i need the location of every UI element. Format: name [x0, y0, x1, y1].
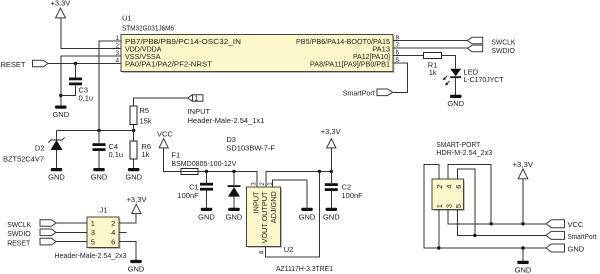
node VCC rail / C1 — [205, 170, 208, 173]
svg-text:STM32G031J6M6: STM32G031J6M6 — [122, 24, 174, 33]
schottky diode D3 — [226, 135, 275, 208]
svg-text:U1: U1 — [122, 14, 132, 23]
power +3.3V (J1 pin 2) — [127, 195, 147, 214]
capacitor C4 — [93, 131, 124, 169]
svg-text:1: 1 — [91, 219, 95, 228]
svg-text:GND: GND — [91, 173, 108, 182]
svg-text:100nF: 100nF — [177, 191, 199, 200]
resistor R1 — [424, 53, 442, 77]
capacitor C2 — [325, 171, 363, 207]
svg-text:+3,3V: +3,3V — [127, 195, 147, 204]
wire J1 pin 2 to +3.3V — [119, 214, 136, 224]
wire SMART-PORT pin 2 to GND row — [424, 164, 546, 248]
wire U2 VOUT (pin 4) loop — [265, 171, 319, 256]
svg-text:+3,3V: +3,3V — [51, 0, 71, 8]
ground (below J1) — [128, 260, 145, 273]
svg-text:SWDIO: SWDIO — [491, 46, 515, 55]
ground (below C1) — [198, 208, 215, 222]
ground (below D2) — [48, 168, 65, 182]
wire RESET to U1 pin 4 — [48, 63, 121, 65]
svg-text:1: 1 — [435, 204, 444, 208]
port SWCLK (top) — [467, 37, 515, 46]
svg-text:RESET: RESET — [7, 239, 30, 248]
svg-text:GND: GND — [299, 213, 316, 222]
wire U2 output rail to +3.3V — [266, 171, 331, 187]
svg-text:15k: 15k — [140, 117, 152, 126]
svg-text:3: 3 — [444, 204, 453, 208]
wire U1 pin 8 to SWCLK — [393, 40, 467, 42]
wire U1 pin 5 to SmartPort flag — [393, 63, 408, 92]
wire VCC to U2 input — [164, 148, 257, 187]
svg-text:2: 2 — [259, 182, 266, 186]
svg-text:Header-Male-2.54_2x3: Header-Male-2.54_2x3 — [55, 251, 127, 260]
port SmartPort (right) — [546, 231, 597, 240]
svg-text:GND: GND — [568, 245, 585, 254]
node pin4/VCC row — [490, 222, 493, 225]
svg-text:2: 2 — [111, 219, 115, 228]
capacitor C3 — [61, 64, 93, 103]
wire SMART-PORT pin 4 to VCC row — [448, 164, 491, 223]
ground (below C2) — [323, 208, 340, 222]
svg-text:+3,3V: +3,3V — [513, 160, 534, 169]
svg-text:BSMD0805-100-12V: BSMD0805-100-12V — [171, 159, 236, 168]
input rail wire (D2/C4/R5/R6) — [57, 130, 134, 132]
voltage regulator U2 — [247, 182, 334, 273]
ground (below D3) — [226, 208, 243, 222]
svg-text:GND: GND — [515, 266, 532, 274]
svg-text:SmartPort: SmartPort — [568, 232, 598, 241]
svg-text:+3,3V: +3,3V — [321, 127, 341, 136]
node RESET/C3 junction — [74, 62, 77, 65]
svg-text:1k: 1k — [142, 150, 150, 159]
svg-text:3: 3 — [250, 182, 257, 186]
port SWDIO (top) — [467, 45, 515, 55]
svg-text:VCC: VCC — [568, 220, 584, 229]
zener diode D2 — [3, 131, 65, 169]
ground (below LED) — [447, 95, 464, 108]
svg-text:OUTPUT: OUTPUT — [260, 191, 269, 222]
svg-text:U2: U2 — [284, 245, 294, 254]
node VSS/C3 junction — [59, 94, 62, 97]
svg-text:Header-Male-2.54_1x1: Header-Male-2.54_1x1 — [188, 116, 265, 125]
svg-text:GND: GND — [226, 213, 243, 222]
wire R1 to LED — [442, 56, 456, 69]
port SWDIO (J1) — [7, 229, 56, 238]
ground (below R6) — [125, 168, 142, 182]
node output rail / VOUT loop — [318, 170, 321, 173]
svg-text:D2: D2 — [35, 144, 45, 153]
svg-text:GND: GND — [48, 173, 65, 182]
svg-text:VOUT: VOUT — [260, 223, 269, 244]
svg-text:4: 4 — [444, 185, 453, 189]
svg-text:BZT52C4V7: BZT52C4V7 — [3, 155, 44, 164]
svg-text:5: 5 — [91, 237, 95, 246]
port INPUT header pin 1 — [188, 95, 265, 125]
port RESET (J1) — [7, 238, 56, 247]
svg-text:3: 3 — [91, 228, 95, 237]
svg-text:GND: GND — [125, 173, 142, 182]
svg-text:1: 1 — [194, 96, 198, 103]
wire +3.3V to U1 pin 2 (VDD) — [61, 18, 121, 49]
svg-text:6: 6 — [111, 237, 115, 246]
svg-text:PA8/PA11[PA9]/PB0/PB1: PA8/PA11[PA9]/PB0/PB1 — [310, 60, 390, 69]
ground (smart-port) — [515, 261, 532, 274]
svg-text:PA0/PA1/PA2/PF2-NRST: PA0/PA1/PA2/PF2-NRST — [125, 60, 212, 69]
svg-text:4: 4 — [258, 250, 265, 254]
wire SWCLK to J1 pin 1 — [56, 222, 87, 224]
svg-text:0,1u: 0,1u — [109, 150, 124, 159]
port VCC (right) — [546, 220, 584, 229]
svg-text:J1: J1 — [100, 206, 108, 215]
svg-text:6: 6 — [454, 185, 463, 189]
LED D1 L-C170JYCT — [443, 68, 504, 95]
power VCC (middle left) — [157, 129, 173, 148]
node GND row — [521, 246, 524, 249]
svg-text:SmartPort: SmartPort — [343, 88, 376, 97]
port RESET — [1, 60, 49, 69]
svg-text:INPUT: INPUT — [188, 107, 211, 116]
wire GND row to ground symbol — [522, 248, 524, 261]
svg-text:GND: GND — [323, 213, 340, 222]
wire U2 ADJ/GND to ground — [273, 180, 307, 208]
wire SMART-PORT pin 1 to GND row — [438, 210, 440, 249]
wire U1 pin 1 down to input rail — [99, 41, 121, 131]
resistor R5 — [130, 98, 187, 131]
svg-text:GND: GND — [198, 213, 215, 222]
svg-text:1k: 1k — [429, 68, 437, 77]
fuse F1 — [171, 151, 236, 175]
wire SMART-PORT pin 5 to SmartPort row — [458, 210, 546, 236]
svg-text:2: 2 — [435, 185, 444, 189]
wire J1 pin 6 to GND — [119, 242, 136, 260]
svg-text:R5: R5 — [140, 106, 150, 115]
wire U1 pin 6 to R1 — [393, 55, 424, 57]
net label SmartPort (U1) — [343, 88, 393, 97]
svg-text:GND: GND — [447, 99, 464, 108]
node +3.3V/VCC row — [521, 222, 524, 225]
node pin6/SmartPort row — [473, 234, 476, 237]
svg-text:SD103BW-7-F: SD103BW-7-F — [226, 143, 275, 152]
node output rail / C2 / +3.3V — [330, 170, 333, 173]
svg-text:4: 4 — [111, 228, 115, 237]
op-amp U1 — [121, 14, 395, 74]
node rail/C4 — [97, 129, 100, 132]
power +3.3V (top left) — [51, 0, 71, 18]
node rail/R5/R6 — [132, 129, 135, 132]
power +3.3V (above C2) — [321, 127, 341, 171]
node VCC rail / D3 — [232, 170, 235, 173]
wire U1 pin 7 to SWDIO — [393, 47, 467, 49]
resistor R6 — [130, 131, 151, 169]
svg-text:0,1u: 0,1u — [79, 94, 94, 103]
svg-text:L-C170JYCT: L-C170JYCT — [464, 75, 504, 84]
wire J1 pin 4 stub (NC) — [119, 231, 127, 233]
svg-text:GND: GND — [128, 264, 145, 273]
wire SWDIO to J1 pin 3 — [56, 231, 87, 233]
svg-text:GND: GND — [52, 110, 69, 119]
port SWCLK (J1) — [7, 220, 56, 229]
svg-text:SWDIO: SWDIO — [7, 229, 31, 238]
wire RESET to J1 pin 5 — [56, 241, 87, 243]
svg-text:AZ1117H-3.3TRE1: AZ1117H-3.3TRE1 — [276, 264, 333, 273]
wire SMART-PORT pin 3 to VCC row — [448, 210, 546, 224]
node pin1/GND row — [437, 246, 440, 249]
header J1 — [55, 206, 127, 260]
svg-text:HDR-M-2.54_2x3: HDR-M-2.54_2x3 — [436, 148, 492, 157]
ground (below C4) — [91, 168, 108, 182]
svg-text:VCC: VCC — [157, 129, 173, 138]
svg-text:2: 2 — [115, 43, 119, 50]
svg-text:100nF: 100nF — [342, 191, 364, 200]
svg-text:5: 5 — [454, 204, 463, 208]
svg-text:RESET: RESET — [1, 60, 26, 69]
ground (below VSS) — [52, 106, 69, 120]
capacitor C1 — [177, 171, 213, 207]
svg-text:ADJ/GND: ADJ/GND — [269, 191, 278, 223]
header SMART-PORT — [432, 140, 492, 211]
power +3.3V (smart-port) — [513, 160, 534, 224]
ground (below ADJ/GND) — [299, 208, 316, 222]
wire U1 pin 3 (VSS) to GND — [61, 56, 121, 106]
wire SMART-PORT pin 6 to SmartPort row — [458, 169, 475, 236]
port GND (right) — [546, 244, 585, 254]
svg-text:SWCLK: SWCLK — [7, 220, 31, 229]
